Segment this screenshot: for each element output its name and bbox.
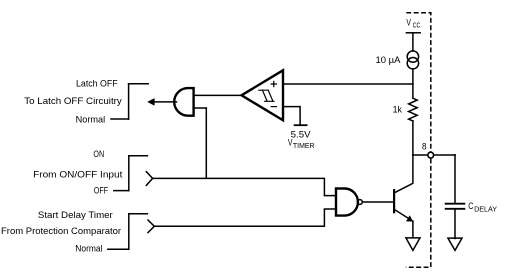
comparator U2 (left-facing) [242,70,284,120]
pin 8 circle [428,152,434,158]
transistor Q1 emitter [395,210,413,222]
wire AND top input to comparator output [194,94,242,96]
wire VCC to current source [412,33,414,51]
nand-gate U3 [336,189,358,216]
arrowhead to latch circuitry [147,98,154,106]
wire comparator plus input to rail [283,83,413,85]
wire AND bottom input vertical [205,108,207,178]
supply tap 5.5V bar [295,124,307,126]
wire node 8 to capacitor [454,155,456,204]
svg-text:Start Delay Timer: Start Delay Timer [38,210,113,220]
current source I1 (10 uA) [407,51,418,62]
wire normal stub (latch group) [111,118,129,120]
wire current source to resistor [412,69,414,98]
hysteresis symbol [259,90,274,101]
svg-text:From ON/OFF Input: From ON/OFF Input [33,170,123,180]
switch chevron (delay) [148,220,154,233]
wire latch-off bracket vertical [128,84,130,119]
capacitor CDELAY [446,204,465,209]
svg-text:OFF: OFF [94,186,109,196]
wire capacitor to ground [454,209,456,238]
nand output bubble [358,200,363,205]
wire emitter to ground [412,221,414,238]
svg-text:Normal: Normal [76,114,106,124]
svg-text:DELAY: DELAY [474,204,497,213]
emitter arrowhead [406,215,413,221]
wire latch-off bracket top [129,83,149,85]
wire resistor to node 8 [412,121,414,155]
resistor R1 1k [409,98,418,121]
wire normal stub (delay group) [108,248,129,250]
comparator plus sign [271,81,276,86]
svg-text:10 µA: 10 µA [376,55,402,65]
svg-text:From Protection Comparator: From Protection Comparator [1,226,121,236]
wire on/off bracket vertical [128,156,130,191]
wire on/off bracket top [129,155,148,157]
svg-text:Latch OFF: Latch OFF [76,78,118,88]
wire AND output arrow line [154,101,177,103]
wire delay bracket top [129,213,148,215]
ground (transistor emitter) [406,238,420,251]
wire node 8 horizontal [413,154,455,156]
and-gate U1 (left-facing) [174,88,193,116]
svg-text:C: C [468,201,473,211]
comparator minus sign [271,106,276,108]
svg-text:8: 8 [422,141,427,151]
svg-text:ON: ON [93,149,104,159]
svg-text:Normal: Normal [75,244,102,254]
svg-text:1k: 1k [393,104,403,114]
transistor Q1 collector [395,155,413,193]
svg-text:To Latch OFF Circuitry: To Latch OFF Circuitry [24,96,122,106]
wire comparator minus input [283,107,300,126]
switch chevron (on/off) [146,172,152,186]
wire off stub [114,190,129,192]
wire nand output to transistor base [363,201,393,203]
svg-text:5.5V: 5.5V [291,129,312,139]
ground (capacitor) [448,238,462,250]
wire delay output line [154,209,336,226]
wire on/off output line [153,178,336,195]
IC boundary dashed box [406,13,431,267]
svg-text:TIMER: TIMER [293,141,315,150]
wire AND bottom input stub [194,107,207,109]
svg-text:V: V [406,18,411,28]
VCC supply bar [406,32,420,34]
transistor Q1 base bar [393,190,395,212]
svg-text:CC: CC [413,21,421,30]
wire delay bracket vertical [128,214,130,250]
